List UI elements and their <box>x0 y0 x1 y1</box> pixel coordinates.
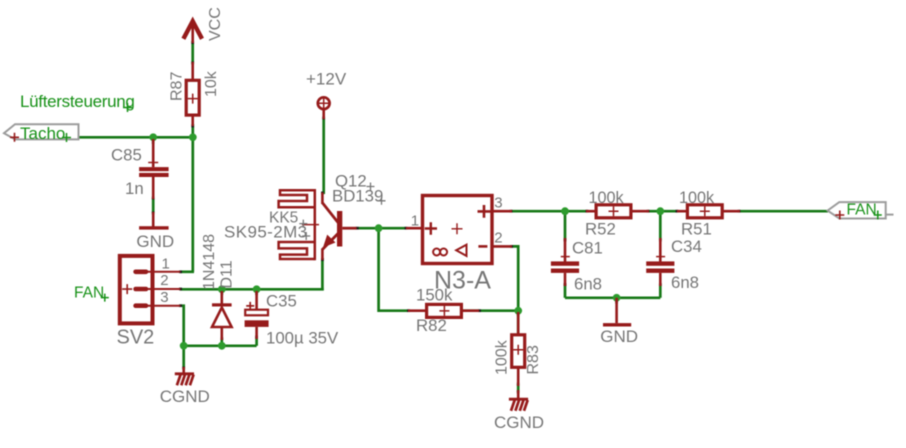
junction node base/R82 <box>375 224 383 232</box>
svg-text:2: 2 <box>160 272 168 289</box>
wire VCC stem green <box>191 41 194 64</box>
wire C85 to GND green segment <box>152 198 155 213</box>
svg-text:+12V: +12V <box>306 70 347 89</box>
pin-net transition marks (black) <box>153 41 740 394</box>
svg-text:10k: 10k <box>203 70 220 97</box>
wire emitter to SV2 pin2 vertical <box>321 258 324 291</box>
wire filter GND net y297.8 <box>565 296 660 299</box>
svg-text:100k: 100k <box>589 189 625 207</box>
ground CGND (right) <box>509 390 528 411</box>
junction node pin3/CGND <box>180 342 188 350</box>
supply VCC arrow symbol <box>183 20 202 43</box>
svg-text:100µ 35V: 100µ 35V <box>266 329 339 348</box>
resistor R51 <box>677 205 740 218</box>
wire opamp pin2 bend down <box>512 246 519 311</box>
resistor R83 <box>512 312 525 386</box>
wire CGND net y345.8 <box>184 344 257 347</box>
capacitor C35 (polarized) <box>245 291 269 339</box>
svg-text:150k: 150k <box>416 285 453 304</box>
svg-text:BD139: BD139 <box>332 187 383 206</box>
svg-text:1: 1 <box>162 255 170 272</box>
capacitor C85 <box>139 139 169 199</box>
wire SV2 pin1 horizontal <box>180 270 194 273</box>
wire Tacho horizontal net y137 <box>78 136 194 139</box>
svg-text:CGND: CGND <box>494 413 544 432</box>
wire R51 to FAN flag <box>739 210 828 213</box>
svg-text:SV2: SV2 <box>117 327 155 349</box>
ground GND (under C85) <box>139 212 169 230</box>
wire opamp output net y211 <box>511 210 588 213</box>
svg-text:3: 3 <box>494 194 502 211</box>
wire base junction down to R82 <box>379 228 409 311</box>
junction node Tacho/R87 <box>189 133 197 141</box>
svg-text:C81: C81 <box>572 238 603 257</box>
resistor R82 <box>408 304 479 317</box>
svg-text:FAN: FAN <box>847 201 877 218</box>
svg-text:R52: R52 <box>585 220 616 239</box>
svg-text:CGND: CGND <box>160 387 210 406</box>
junction node pin2/C35 <box>253 285 261 293</box>
resistor R52 <box>586 205 649 218</box>
svg-text:C85: C85 <box>111 146 142 165</box>
junction node pin2/D11 <box>218 285 226 293</box>
transistor Q2 BD139 <box>322 193 356 261</box>
wire CGND stem left <box>182 346 185 369</box>
wire SV2 pin2 net y289.7 <box>180 288 324 291</box>
wire D11 bottom green <box>220 339 223 346</box>
flag FAN (xref right) <box>828 202 894 219</box>
op-amp N3-A <box>406 196 512 264</box>
junction node R82/R83/pin2 <box>514 307 522 315</box>
svg-text:C35: C35 <box>266 292 297 311</box>
wire SV2 pin3 bend <box>180 306 184 346</box>
svg-text:6n8: 6n8 <box>671 273 699 292</box>
capacitor C81 <box>551 238 579 286</box>
heatsink KK5 <box>279 189 319 260</box>
flag Tacho (xref) <box>4 124 79 142</box>
wire R52-R51 net <box>648 210 678 213</box>
svg-text:VCC: VCC <box>207 7 224 41</box>
junction node D11/CGND net <box>218 342 226 350</box>
wire base to opamp pin1 <box>356 227 407 230</box>
wire C34 bottom green <box>659 284 662 298</box>
svg-text:2: 2 <box>494 230 502 247</box>
ground GND (filter) <box>603 298 631 327</box>
svg-text:1N4148: 1N4148 <box>201 234 218 290</box>
wire +12V stem green <box>322 117 325 194</box>
junction node Tacho/C85 <box>149 133 157 141</box>
svg-text:6n8: 6n8 <box>574 274 602 293</box>
svg-text:SK95-2M3: SK95-2M3 <box>224 222 308 241</box>
wire C81 bottom green <box>564 284 567 298</box>
svg-text:3: 3 <box>160 289 168 306</box>
svg-text:R83: R83 <box>525 345 542 374</box>
junction node R52/R51/C34 <box>656 207 664 215</box>
svg-text:R87: R87 <box>169 72 186 101</box>
svg-text:100k: 100k <box>494 339 511 375</box>
wire C35 bottom green <box>255 337 258 346</box>
svg-text:D11: D11 <box>219 260 236 288</box>
supply +12V symbol <box>317 97 330 119</box>
svg-text:FAN: FAN <box>74 284 104 301</box>
wire R83 bottom green segment <box>517 384 520 392</box>
svg-text:1n: 1n <box>125 179 144 198</box>
wire R83 top stub <box>517 311 520 334</box>
capacitor C34 <box>646 238 674 286</box>
diode D11 1N4148 <box>212 291 232 340</box>
svg-text:Lüftersteuerung: Lüftersteuerung <box>20 92 135 111</box>
connector SV2 <box>120 256 181 324</box>
svg-text:C34: C34 <box>671 237 702 256</box>
junction node out/C81 <box>561 207 569 215</box>
ground CGND (left) <box>175 367 194 385</box>
junction node C81/C34/GND <box>613 294 621 302</box>
svg-text:R51: R51 <box>681 220 712 239</box>
wire R82 right to R83 junction <box>462 309 519 312</box>
wire C34 top stem green <box>659 211 662 240</box>
svg-text:Tacho: Tacho <box>20 124 65 143</box>
wire C81 top stem green <box>564 211 567 240</box>
svg-text:GND: GND <box>136 232 174 251</box>
svg-text:GND: GND <box>600 327 638 346</box>
svg-text:1: 1 <box>411 212 419 229</box>
svg-text:100k: 100k <box>679 189 715 207</box>
wire vertical R87 to SV2 pin1 x192.8 <box>191 124 194 272</box>
resistor R87 <box>186 62 199 126</box>
svg-text:R82: R82 <box>416 316 447 335</box>
